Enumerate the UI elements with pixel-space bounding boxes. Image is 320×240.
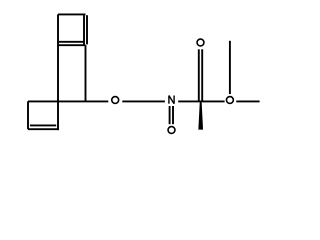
wire: long vertical bond (ring A/B left edge + ring C right edge) <box>57 14 59 130</box>
atom O2 (N-oxide oxygen) <box>168 127 175 134</box>
wire: bond N to carbonyl C <box>178 100 200 102</box>
atom O4 (ester oxygen) <box>226 97 233 104</box>
wire: C=O double bond line 1 <box>198 49 200 101</box>
wire: C=O double bond line 2 <box>201 49 203 101</box>
atom N <box>169 96 174 104</box>
atom O3 (carbonyl oxygen) <box>197 39 204 46</box>
wire: ring A right double bond line 1 <box>83 15 85 44</box>
wire: ring C bottom double bond inner line <box>30 124 56 126</box>
wire: ring C bottom edge <box>28 128 59 130</box>
wedge bond down from carbonyl C to methyl <box>198 101 203 129</box>
wire: ring A right double bond line 2 <box>86 15 88 44</box>
wire: ring A bottom double bond inner line <box>59 41 85 43</box>
wire: ring C left edge <box>27 101 29 129</box>
wire: ring A top edge <box>58 13 86 15</box>
wire: chain bond ring C top edge + spiro C to O1 <box>28 100 108 102</box>
wire: ring A/B shared edge <box>58 44 86 46</box>
wire: N=O double bond line 2 <box>172 106 174 124</box>
atom O1 (chain left oxygen) <box>112 97 119 104</box>
wire: bond C to O4 <box>201 100 225 102</box>
wire: ring B right edge <box>85 45 87 101</box>
wire: N=O double bond line 1 <box>169 106 171 124</box>
wire: bond O4 right to methyl <box>236 100 259 102</box>
wire: bond O1 to N <box>122 100 165 102</box>
wire: bond O4 up to methyl <box>229 41 231 94</box>
